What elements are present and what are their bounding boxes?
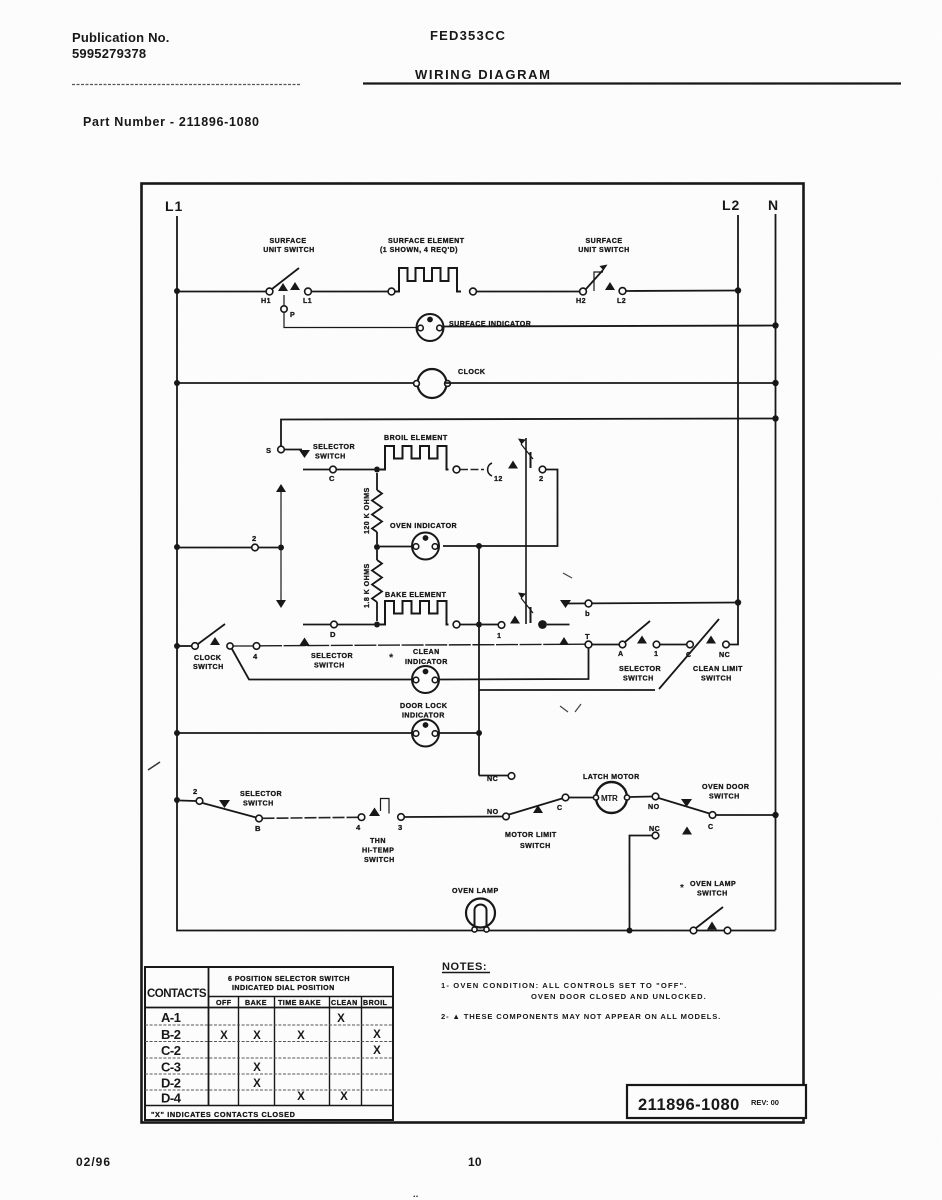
surface unit switch 2 <box>576 237 630 305</box>
footer page text <box>76 1155 482 1199</box>
clean limit switch terminal T <box>559 632 592 648</box>
indicator lamp: oven indicator <box>390 522 457 560</box>
surface element E1 <box>380 237 476 295</box>
node junction x479 door lock row <box>476 730 482 736</box>
wire switch 2 to L2 bus <box>626 290 738 293</box>
indicator lamp: door lock indicator <box>400 702 448 747</box>
wire clock to N <box>446 382 776 384</box>
oven door switch <box>648 783 749 839</box>
wire motor limit C to latch motor <box>569 797 596 799</box>
wire L1 to clock <box>177 382 419 384</box>
indicator lamp: surface indicator <box>417 314 532 341</box>
wire surface indicator to N <box>443 326 776 327</box>
junction dots on L1 bus <box>174 288 180 294</box>
selector contact 2 (left) <box>252 534 259 551</box>
wire clock switch throw to clean indicator <box>232 649 412 680</box>
bake element <box>380 591 460 628</box>
clock motor <box>414 368 486 398</box>
part number rev box <box>627 1085 806 1118</box>
wire hi-temp to motor limit NO <box>405 816 503 819</box>
selector switch contacts A-1 <box>618 621 661 683</box>
clock switch <box>192 624 233 671</box>
indicator lamp: clean indicator <box>412 666 440 693</box>
wire x479 branch to clean limit blade <box>479 689 655 691</box>
wire door lock indicator to junction <box>438 732 479 734</box>
wire contact 2 down to oven indicator row <box>443 470 558 547</box>
wire L1 contact to surface element <box>312 291 389 293</box>
oven lamp switch <box>680 880 736 934</box>
node junction jumper/row2 <box>278 545 284 551</box>
relay contact 12 / 2 (bake/broil relay upper) <box>488 438 546 624</box>
selector switch contact S <box>266 443 355 461</box>
wire junction to relay contact 1 <box>482 624 498 626</box>
junction dots on N bus <box>772 322 778 328</box>
node junction lamp row / NC drop <box>627 928 633 934</box>
wire vertical x479 oven ind to motor limit NC <box>478 546 480 776</box>
notes <box>441 961 721 1021</box>
wire broil element to relay contact 12 <box>460 469 484 471</box>
node junction C row / resistor <box>374 467 380 473</box>
motor limit switch <box>479 773 569 850</box>
diagram frame border <box>142 184 804 1123</box>
wire clock switch row <box>177 645 192 647</box>
wire surface element to switch 2 <box>477 291 581 293</box>
thin hi-temp switch <box>356 799 404 865</box>
selector contact b row <box>560 600 738 618</box>
contacts table <box>145 967 393 1120</box>
wire row1 L1 to surface unit switch <box>177 291 266 293</box>
wire N bus vertical <box>775 214 777 930</box>
wire selector 4 to T <box>260 644 585 646</box>
wire P to surface indicator <box>284 313 417 328</box>
resistor 1.8 K OHMS <box>363 550 382 621</box>
wire L1 to selector contact 2 <box>177 547 278 549</box>
oven lamp <box>452 887 499 932</box>
relay contact 1 (bake/broil relay lower) <box>497 593 547 641</box>
latch motor M1 <box>583 773 640 813</box>
wire selector 1 to clean limit C <box>660 644 686 646</box>
header text block <box>72 28 901 129</box>
wire L1 to door lock indicator <box>177 732 413 734</box>
surface unit switch 1 <box>261 237 315 305</box>
junction dots on L2 bus <box>735 287 741 293</box>
wire latch motor to oven door switch NO <box>630 796 653 799</box>
wire selector S feed to N <box>281 419 776 447</box>
selector contact D <box>330 621 337 639</box>
node junction bake row x479 <box>476 622 482 628</box>
node junction D row / resistor <box>374 622 380 628</box>
wire T to selector A <box>592 644 619 646</box>
stray scan marks <box>148 762 160 770</box>
wire L2 bus vertical <box>729 215 738 645</box>
wire B to hi-temp switch <box>263 817 359 818</box>
wire broil row C <box>303 469 374 471</box>
optional jumper wire with triangles <box>276 484 286 608</box>
wire oven door C to N <box>716 814 776 816</box>
broil element <box>380 434 460 473</box>
wire resistor junction to oven indicator <box>380 546 413 548</box>
selector contact C <box>329 466 336 483</box>
clean limit switch C-NC <box>659 619 743 689</box>
pin P terminal of surface switch <box>281 295 295 319</box>
wire relay common to end <box>547 624 570 626</box>
wire clean indicator to T <box>438 648 589 680</box>
selector switch contact B row <box>180 787 282 833</box>
wire bake row D <box>303 624 374 626</box>
wire oven door NC down to lamp row <box>630 836 653 931</box>
node junction oven indicator row x479 <box>476 543 482 549</box>
selector contact 4 (clock row) <box>233 643 260 661</box>
wire bake element to junction <box>460 624 479 626</box>
node junction between resistors <box>374 544 380 550</box>
resistor 120 K OHMS <box>363 473 382 544</box>
wire L1 bus vertical + bottom rail <box>177 216 776 931</box>
